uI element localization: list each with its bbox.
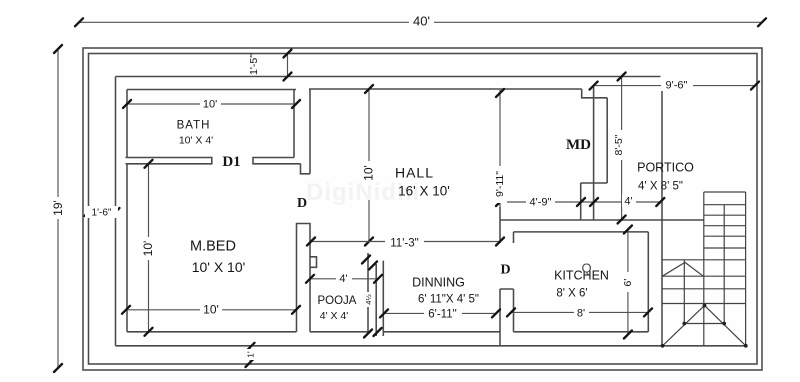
stair step line 3 (704, 225, 746, 227)
pooja wall bottom ticks (364, 328, 382, 338)
pooja right thin wall mid face (375, 264, 377, 336)
dim 1 foot bottom line (249, 346, 251, 364)
svg-text:4': 4' (624, 196, 632, 208)
svg-text:D: D (297, 196, 307, 211)
svg-text:8': 8' (577, 308, 585, 320)
dinning-kitchen wall upper left face (499, 207, 501, 243)
dim mbed horizontal 10 ticks (122, 306, 300, 314)
hall top inner step near MD (582, 89, 608, 98)
dim 8-5 vertical line (621, 77, 623, 220)
stair small up-arrow triangle (662, 262, 703, 276)
svg-text:DINNING: DINNING (412, 276, 465, 290)
label 40 feet (409, 14, 434, 28)
stairs center divider (723, 205, 725, 324)
dim hall vertical 10 line (368, 89, 370, 242)
svg-text:4' X 8' 5": 4' X 8' 5" (638, 181, 683, 193)
hall right wall right face (606, 98, 608, 183)
dinning bottom inner face (383, 331, 500, 333)
label 11-3 (385, 236, 424, 249)
dinning-kitchen wall upper right face (513, 232, 515, 243)
dim 11-3 ticks (307, 238, 504, 246)
stairs top cap (704, 191, 746, 193)
svg-text:1'-5": 1'-5" (248, 54, 260, 75)
kitchen top inner face (514, 231, 649, 233)
dim 1-6 left line (89, 211, 116, 213)
hall top inner face (309, 88, 582, 90)
stair step line 2 (704, 214, 746, 216)
stair step line 7 full width (662, 275, 746, 277)
dim mbed vertical 10 ticks (145, 160, 153, 336)
dim pooja 4 line (310, 278, 378, 280)
stair junction dot 1 (703, 304, 707, 308)
dim bath 10 line (127, 103, 296, 105)
dim 9-6 ticks (590, 82, 759, 90)
kitchen right wall inner face (647, 232, 649, 332)
m.bed left inner face (126, 164, 128, 332)
dim pooja 4 ticks (306, 275, 382, 283)
dim 6-11 ticks (380, 309, 500, 317)
label wall 4.5 inch (362, 292, 375, 307)
kitchen bottom inner face (514, 331, 649, 333)
svg-text:10': 10' (203, 99, 217, 111)
stair mid landing line (684, 323, 724, 325)
svg-text:16' X 10': 16' X 10' (398, 184, 450, 199)
dim mbed horizontal 10 line (126, 309, 296, 311)
label 6-11 (424, 307, 462, 320)
dim 40 feet top line (79, 21, 762, 23)
svg-text:10': 10' (203, 303, 219, 317)
svg-text:9'-6": 9'-6" (666, 80, 688, 92)
dim kitchen 6 vertical line (627, 230, 629, 335)
label 1 foot (245, 349, 256, 360)
bath right wall right face (309, 90, 311, 174)
dim kitchen 8 line (511, 311, 648, 313)
bath top inner face (127, 89, 296, 91)
stair big break triangle legs (663, 306, 746, 346)
svg-text:10' X 10': 10' X 10' (192, 259, 246, 275)
svg-text:D: D (500, 263, 510, 278)
svg-text:PORTICO: PORTICO (637, 161, 694, 175)
stair step line 6 full width (662, 259, 746, 261)
svg-text:9'-11": 9'-11" (494, 171, 506, 197)
label 9-6 (661, 78, 693, 91)
dim 6-11 line (384, 312, 496, 314)
svg-text:10' X 4': 10' X 4' (179, 135, 213, 147)
wall stub left face below cap (580, 183, 582, 220)
hall right wall bottom cap (581, 182, 608, 184)
label kitchen 6 vertical (621, 272, 634, 292)
dim hall vertical 10 ticks (365, 85, 373, 246)
svg-text:10': 10' (362, 165, 376, 181)
svg-text:MD: MD (566, 137, 591, 153)
label pooja 4 (336, 272, 352, 285)
dim 19 feet ticks (54, 45, 62, 372)
dim kitchen 8 ticks (507, 308, 652, 316)
label mbed horizontal 10 (200, 302, 222, 316)
label hall vertical 10 (361, 161, 376, 185)
dim 19 feet left line (57, 49, 59, 368)
stair step line 1 (704, 204, 746, 206)
svg-text:1'-6": 1'-6" (92, 208, 112, 219)
svg-text:1': 1' (246, 351, 256, 358)
svg-text:BATH: BATH (177, 120, 211, 132)
plot outer boundary (83, 48, 762, 370)
label 4-9 (526, 195, 555, 208)
label 1-6 (85, 206, 118, 218)
building left outer face (115, 77, 117, 346)
dim 4-9 line (499, 201, 660, 203)
bath right wall bottom jog (301, 164, 311, 174)
building top outer face (116, 76, 661, 78)
bath bottom wall band B (right of door D1) (253, 158, 301, 164)
svg-text:40': 40' (413, 14, 430, 29)
dim 9-11 ticks (496, 89, 504, 206)
svg-text:M.BED: M.BED (190, 239, 236, 255)
bath left inner face (126, 90, 128, 158)
svg-text:19': 19' (51, 200, 65, 216)
hall right wall left face (593, 85, 595, 220)
stair step line 9 full width (662, 303, 746, 305)
svg-text:D1: D1 (222, 154, 240, 170)
dim 1-5 vertical line top (287, 54, 289, 77)
svg-text:6': 6' (622, 279, 634, 287)
m.bed right wall below door D (297, 224, 311, 332)
stair junction dot 3 (722, 322, 726, 326)
dinning-kitchen wall lower segment (500, 289, 514, 346)
dim 40 feet ticks (75, 18, 766, 26)
plot inner boundary (89, 54, 758, 365)
kitchen top outer face (500, 219, 704, 221)
stair step line 8 full width (662, 288, 746, 290)
dim 8-5 ticks (618, 73, 626, 224)
svg-text:4': 4' (339, 273, 347, 285)
svg-text:10': 10' (141, 241, 155, 257)
dim kitchen 6 ticks (624, 226, 632, 339)
pooja right thin wall right face (382, 261, 384, 336)
label bath 10 (200, 97, 221, 110)
svg-text:6'-11": 6'-11" (428, 309, 456, 321)
label 9-11 (493, 166, 507, 203)
dim 9-11 vertical line (499, 90, 501, 207)
stair junction dot 5 (744, 344, 748, 348)
svg-text:8' X 6': 8' X 6' (556, 288, 587, 300)
m.bed bottom inner face (127, 331, 297, 333)
dim 1-5 ticks (284, 50, 292, 81)
svg-text:8'-5": 8'-5" (613, 134, 625, 155)
svg-text:4'-9": 4'-9" (530, 197, 552, 209)
svg-text:6' 11"X 4' 5": 6' 11"X 4' 5" (418, 294, 479, 306)
stair junction dot 2 (682, 322, 686, 326)
svg-text:HALL: HALL (395, 165, 434, 181)
svg-text:Q: Q (581, 261, 591, 276)
label 8-5 (612, 130, 625, 160)
svg-text:POOJA: POOJA (318, 295, 357, 307)
dim 1-6 ticks (85, 208, 120, 216)
bath bottom wall band A (left of door D1) (126, 158, 212, 164)
label kitchen 8 (574, 306, 589, 319)
svg-text:11'-3": 11'-3" (390, 238, 418, 250)
pooja wall notch (310, 257, 317, 268)
stairs left column edge (703, 192, 705, 346)
svg-text:4½: 4½ (364, 294, 373, 305)
dim mbed vertical 10 line (148, 164, 150, 332)
pooja wall top double ticks (362, 256, 377, 270)
building bottom outer face (116, 345, 747, 347)
stairs right edge (745, 192, 747, 346)
kitchen right wall outer face / yard line (661, 86, 663, 346)
svg-text:4' X 4': 4' X 4' (320, 310, 349, 322)
stair junction dot 4 (661, 344, 665, 348)
pooja bottom inner face (310, 331, 371, 333)
dim 11-3 line (311, 241, 500, 243)
stair step line 5 (704, 247, 746, 249)
dim 1 foot ticks (246, 343, 255, 367)
label portico 4 (622, 194, 636, 207)
label 19 feet (50, 197, 65, 219)
pooja right thin wall left face (367, 253, 369, 334)
dim 4-9 ticks (577, 198, 664, 206)
stair step line 4 (704, 235, 746, 237)
label mbed vertical 10 (141, 237, 155, 260)
stair left flight divider (683, 260, 685, 324)
dim 9-6 line (594, 85, 755, 87)
dim bath 10 ticks (123, 100, 300, 108)
bath right wall left face (293, 90, 295, 158)
